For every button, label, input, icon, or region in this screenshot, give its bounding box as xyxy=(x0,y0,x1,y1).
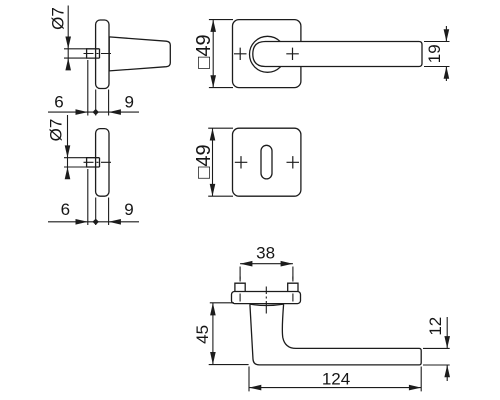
svg-text:6: 6 xyxy=(61,200,70,219)
arrow Ø7 bottom (view2) xyxy=(65,167,71,179)
collar circle (view3) xyxy=(250,36,286,72)
center dash line left screw (view5) xyxy=(239,277,241,302)
center dash line right screw (view5) xyxy=(292,277,294,302)
arrow 124 right (view5) xyxy=(409,385,421,391)
arrow 6 (view2) xyxy=(76,219,88,225)
arrow Ø7 bottom (view1) xyxy=(65,58,71,70)
arrow 38 right (view5) xyxy=(281,261,293,267)
dim 6/9 ext lines (view2) xyxy=(88,169,109,225)
arrow sq49 top (view3) xyxy=(210,20,216,32)
arrow sq49 top (view4) xyxy=(210,128,216,140)
rose side view xyxy=(96,20,109,89)
arrow 12 bottom (view5) xyxy=(444,365,450,377)
dim Ø7 ext lines (view1) xyxy=(64,49,87,58)
svg-text:38: 38 xyxy=(256,244,275,263)
arrow 124 left (view5) xyxy=(249,385,261,391)
diamond junction (view2) xyxy=(93,219,99,225)
arrow sq49 bottom (view4) xyxy=(210,184,216,196)
dim Ø7 line (view1) xyxy=(67,6,69,71)
rose bar (view5) xyxy=(232,292,301,304)
center line through screw xyxy=(84,53,112,55)
handle profile (view5) xyxy=(250,304,421,365)
dim 38 ext lines (view5) xyxy=(240,267,293,280)
center dash line spindle (view5) xyxy=(265,287,267,314)
screw head right (view5) xyxy=(288,283,298,291)
arrow sq49 bottom (view3) xyxy=(210,75,216,87)
dim 45 ext lines (view5) xyxy=(209,303,249,365)
dim 45 line (view5) xyxy=(212,303,214,365)
arrow 19 bottom (view3) xyxy=(444,67,450,79)
diamond junction (view1) xyxy=(93,109,99,115)
dim 19 ext lines (view3) xyxy=(424,42,450,67)
dim 124 line (view5) xyxy=(249,387,421,389)
dim square49 ext lines (view3) xyxy=(209,20,233,88)
dim 38 line (view5) xyxy=(240,263,293,265)
screw head side view (view2) xyxy=(87,158,100,167)
dim 12 ext lines (view5) xyxy=(423,348,450,365)
dim 124 ext lines (view5) xyxy=(249,367,421,392)
svg-text:9: 9 xyxy=(124,93,133,112)
dim 6/9 line (view1) xyxy=(48,111,139,113)
handle neck side view xyxy=(109,37,170,71)
keyhole slot xyxy=(261,145,272,179)
cross right (view3) xyxy=(286,48,299,60)
cross right (view4) xyxy=(287,156,300,168)
arrow 45 top (view5) xyxy=(210,303,216,316)
lever bar (view3) xyxy=(253,42,422,67)
arrow Ø7 top (view1) xyxy=(65,37,71,49)
arrow 12 top (view5) xyxy=(444,336,450,348)
svg-text:124: 124 xyxy=(322,370,350,389)
square rose front xyxy=(233,20,301,88)
svg-text:6: 6 xyxy=(54,93,63,112)
svg-text:Ø7: Ø7 xyxy=(49,7,68,30)
dim Ø7 ext lines (view2) xyxy=(64,158,87,167)
svg-text:Ø7: Ø7 xyxy=(47,119,66,142)
center line through screw (view2) xyxy=(84,161,112,163)
svg-text:□49: □49 xyxy=(193,34,215,68)
neck top edge (view5) xyxy=(250,304,284,305)
arrow 45 bottom (view5) xyxy=(210,352,216,365)
svg-text:9: 9 xyxy=(124,200,133,219)
dim 6/9 ext lines (view1) xyxy=(88,60,109,116)
key rose side view xyxy=(96,129,109,197)
dim square49 line (view3) xyxy=(212,20,214,88)
arrow 9 (view1) xyxy=(109,109,121,115)
dim square49 line (view4) xyxy=(212,128,214,196)
dim Ø7 line (view2) xyxy=(67,115,69,179)
arrow 19 top (view3) xyxy=(444,29,450,41)
screw head side view xyxy=(87,49,100,58)
square key rose front xyxy=(233,128,301,196)
arrow 38 left (view5) xyxy=(240,261,252,267)
cross left (view3) xyxy=(234,48,247,60)
dim square49 ext lines (view4) xyxy=(208,128,233,196)
cross left (view4) xyxy=(235,156,248,168)
svg-text:19: 19 xyxy=(425,44,444,63)
dim 12 line (view5) xyxy=(446,317,448,381)
screw head left (view5) xyxy=(235,283,245,291)
svg-text:45: 45 xyxy=(193,325,212,344)
dim 6/9 line (view2) xyxy=(48,221,139,223)
arrow Ø7 top (view2) xyxy=(65,145,71,157)
dim 19 line (view3) xyxy=(445,26,447,81)
svg-text:12: 12 xyxy=(426,317,445,336)
arrow 6 (view1) xyxy=(76,109,88,115)
arrow 9 (view2) xyxy=(109,219,121,225)
svg-text:□49: □49 xyxy=(193,144,215,178)
